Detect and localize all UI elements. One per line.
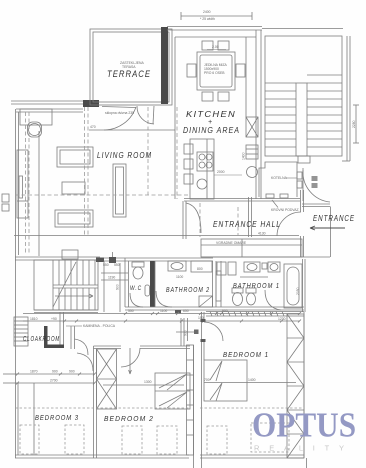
small sink WC <box>145 285 150 296</box>
wall: hall bottom <box>201 256 330 258</box>
bathtub bathroom 1 <box>284 264 302 308</box>
wardrobe column right with X <box>287 314 304 458</box>
svg-text:150: 150 <box>198 316 204 320</box>
wall: hall divider <box>192 197 299 237</box>
door arc: bedroom 2 <box>121 348 140 374</box>
dim extensions left edge <box>3 374 17 383</box>
wall: kitchen top double <box>167 27 343 31</box>
svg-text:BEDROOM 2: BEDROOM 2 <box>104 414 154 423</box>
sideboard top-left living room <box>20 109 52 125</box>
wall: rooms bottom <box>125 307 304 314</box>
kitchen right appliance column <box>246 117 258 178</box>
svg-text:KAMNENA - POLICA: KAMNENA - POLICA <box>83 324 116 328</box>
stair treads right flight <box>307 75 342 147</box>
svg-text:VGRADNE OMARE: VGRADNE OMARE <box>216 241 247 245</box>
meter boxes outside left wall <box>2 194 9 211</box>
sink bathroom 2 <box>168 261 186 271</box>
svg-text:BEDROOM 3: BEDROOM 3 <box>35 413 79 422</box>
shower boxes bathroom 1 <box>217 262 236 275</box>
terrace outer box <box>90 29 172 105</box>
terrace door arcs <box>102 106 154 130</box>
dimension: 2400 top <box>181 12 252 20</box>
svg-text:* 25 width: * 25 width <box>200 17 215 21</box>
svg-text:DINING AREA: DINING AREA <box>183 125 240 135</box>
svg-text:2700: 2700 <box>50 379 58 383</box>
door jamb hatch at boiler <box>297 172 302 188</box>
svg-text:900: 900 <box>52 370 58 374</box>
cloakroom hatched wardrobe <box>14 317 28 346</box>
svg-text:ENTRANCE HALL: ENTRANCE HALL <box>213 219 281 229</box>
dim vertical corridor <box>187 318 189 341</box>
svg-text:900: 900 <box>222 309 228 313</box>
sinks bathroom 1 <box>244 262 280 272</box>
dimension chain mid y321 <box>23 320 301 323</box>
sofa bottom living room <box>55 210 93 227</box>
svg-text:900: 900 <box>184 330 188 336</box>
line y235 living room <box>14 235 192 237</box>
svg-text:550: 550 <box>128 309 134 313</box>
svg-text:2050: 2050 <box>296 287 300 295</box>
wall: bedroom3 left inner <box>17 383 19 455</box>
closet line bedroom3 <box>33 383 35 455</box>
wall: bedrooms bottom <box>15 455 304 458</box>
wall: living room left outer <box>16 109 84 458</box>
wall: bedroom2 top <box>94 346 191 349</box>
bidet bathroom 1 <box>246 288 256 305</box>
internal staircase down <box>34 260 98 310</box>
wall: hall right <box>301 190 304 257</box>
kitchen sink circle <box>197 179 207 189</box>
wall: bathroom1 right <box>303 259 306 312</box>
svg-text:470: 470 <box>90 125 96 129</box>
svg-text:KROVNI PODVAZ: KROVNI PODVAZ <box>271 208 299 212</box>
door jambs bedroom1 <box>201 319 206 342</box>
wall: bedroom3 top <box>16 382 96 385</box>
svg-text:1100: 1100 <box>176 275 183 279</box>
dim vertical right outside <box>353 105 359 143</box>
svg-text:1300: 1300 <box>144 380 152 384</box>
bathroom 1 room <box>216 261 221 307</box>
toilet in WC <box>132 262 144 279</box>
sofa top living room <box>57 147 93 167</box>
shaft symbol small squares <box>176 330 199 335</box>
leader kotelna <box>286 177 297 179</box>
svg-text:4130: 4130 <box>258 232 266 236</box>
door arc: hallway to bedroom corridor <box>75 339 89 355</box>
svg-text:KITCHEN: KITCHEN <box>186 109 236 119</box>
wardrobe bedroom 2 <box>155 373 190 409</box>
shower box bathroom 2 <box>191 261 212 272</box>
door arc: bedroom 3 <box>77 353 93 371</box>
wall: kitchen bottom / hall top <box>184 199 300 202</box>
svg-text:BATHROOM 1: BATHROOM 1 <box>233 283 280 290</box>
svg-text:1400: 1400 <box>248 378 256 382</box>
wall: terrace left dark corner <box>83 100 99 107</box>
toilet bathroom 1 <box>232 288 243 306</box>
entrance door leaf <box>302 168 304 201</box>
WC room <box>125 258 155 307</box>
kitchen counter island <box>190 139 214 199</box>
svg-text:2000: 2000 <box>217 170 225 174</box>
svg-text:2.00: 2.00 <box>212 45 219 49</box>
couch right living room <box>113 164 126 217</box>
dashed guides living room <box>15 107 238 255</box>
chairs around dining table <box>187 41 245 101</box>
svg-text:900: 900 <box>69 370 75 374</box>
hall closet long box <box>201 239 302 257</box>
svg-text:PRO 6 OSEB: PRO 6 OSEB <box>204 71 225 75</box>
svg-text:TERRACE: TERRACE <box>107 69 151 79</box>
door arc: bathroom 1 <box>265 290 281 310</box>
door arc: WC <box>130 293 143 307</box>
corridor walls vertical center <box>181 312 204 468</box>
bathroom 2 room walls <box>155 261 216 307</box>
stair treads left flight <box>265 83 296 147</box>
svg-text:2400: 2400 <box>203 10 211 14</box>
coffee table <box>62 182 85 194</box>
wall: living room top line <box>89 129 175 131</box>
kitchen appliances left of island <box>184 144 193 184</box>
shower tray bathroom 2 <box>199 296 213 307</box>
svg-text:+90: +90 <box>51 317 57 321</box>
wall: WC & bathroom2 row top <box>96 258 213 263</box>
svg-text:650: 650 <box>183 309 189 313</box>
svg-text:OPTUS: OPTUS <box>252 407 356 445</box>
wall: right edge bedroom1 <box>304 312 307 468</box>
svg-text:1400: 1400 <box>242 152 246 160</box>
svg-text:ENTRANCE: ENTRANCE <box>313 214 355 223</box>
svg-text:BEDROOM 1: BEDROOM 1 <box>223 350 269 359</box>
wall: terrace right dark <box>161 27 168 104</box>
svg-text:LIVING ROOM: LIVING ROOM <box>97 150 152 160</box>
wall: bedroom3/2 divider <box>94 346 97 458</box>
door arc: bedroom 1 <box>204 322 223 341</box>
svg-text:550: 550 <box>103 263 109 267</box>
door arc: living room to hall <box>186 203 201 233</box>
wall line x39 living room <box>38 131 40 256</box>
entrance arrow <box>310 226 345 230</box>
stair center column <box>296 83 310 163</box>
corridor shaft cells <box>187 345 194 455</box>
dimension: bedroom1 y383 <box>204 382 296 384</box>
stove burners <box>197 152 213 171</box>
svg-text:550: 550 <box>114 263 120 267</box>
wall below internal stairs <box>34 310 98 313</box>
shelf left living room <box>17 150 28 218</box>
dim lines left of WC <box>101 252 128 312</box>
door arc: entrance outer <box>303 170 330 202</box>
boiler room box <box>259 162 297 198</box>
kitchen interior box <box>175 30 261 199</box>
svg-text:1100: 1100 <box>160 309 167 313</box>
entrance threshold <box>302 204 330 207</box>
dining table <box>197 52 235 90</box>
wall: bedroom1 top hatched <box>206 312 304 317</box>
closet X bedroom2 left <box>97 349 117 409</box>
wall: right outer of stairwell <box>342 36 350 161</box>
closet bedroom 1 <box>204 360 247 401</box>
svg-text:2280: 2280 <box>352 120 356 128</box>
dimension line bedroom3 <box>16 373 96 376</box>
svg-text:1870: 1870 <box>30 370 38 374</box>
svg-text:700: 700 <box>204 378 210 382</box>
svg-text:900: 900 <box>116 284 120 290</box>
shelf under sinks B1 <box>240 276 268 278</box>
door arc: entrance inner <box>277 212 301 236</box>
terrace inner box <box>93 32 169 102</box>
plant pot <box>28 122 42 137</box>
svg-text:TERASA: TERASA <box>122 65 136 69</box>
wall: living room bottom <box>15 250 100 260</box>
wall: hall left <box>183 201 186 239</box>
svg-text:sklopna dvizna 235: sklopna dvizna 235 <box>105 111 134 115</box>
dimension line bedroom2 <box>103 384 184 386</box>
svg-text:1810: 1810 <box>30 317 38 321</box>
dimension chain mid y313 <box>23 312 301 315</box>
eaves line top-left <box>11 101 83 104</box>
svg-text:REALITY: REALITY <box>254 444 354 453</box>
svg-text:800: 800 <box>197 267 203 271</box>
svg-text:W.C: W.C <box>130 285 142 292</box>
walls around cloakroom <box>44 312 75 349</box>
column X small <box>109 257 116 263</box>
wall: porch right <box>330 207 332 258</box>
svg-text:KOTELNA: KOTELNA <box>271 176 288 180</box>
svg-text:CLOAKROOM: CLOAKROOM <box>23 336 60 343</box>
door arc: bathroom 2 <box>156 291 172 307</box>
svg-text:BATHROOM 2: BATHROOM 2 <box>166 287 210 294</box>
dashed beds bedrooms <box>15 408 304 454</box>
entrance door hatch marks <box>312 176 318 188</box>
staircase main box <box>265 36 342 156</box>
svg-text:1230: 1230 <box>278 317 286 321</box>
svg-text:1190: 1190 <box>108 276 115 280</box>
